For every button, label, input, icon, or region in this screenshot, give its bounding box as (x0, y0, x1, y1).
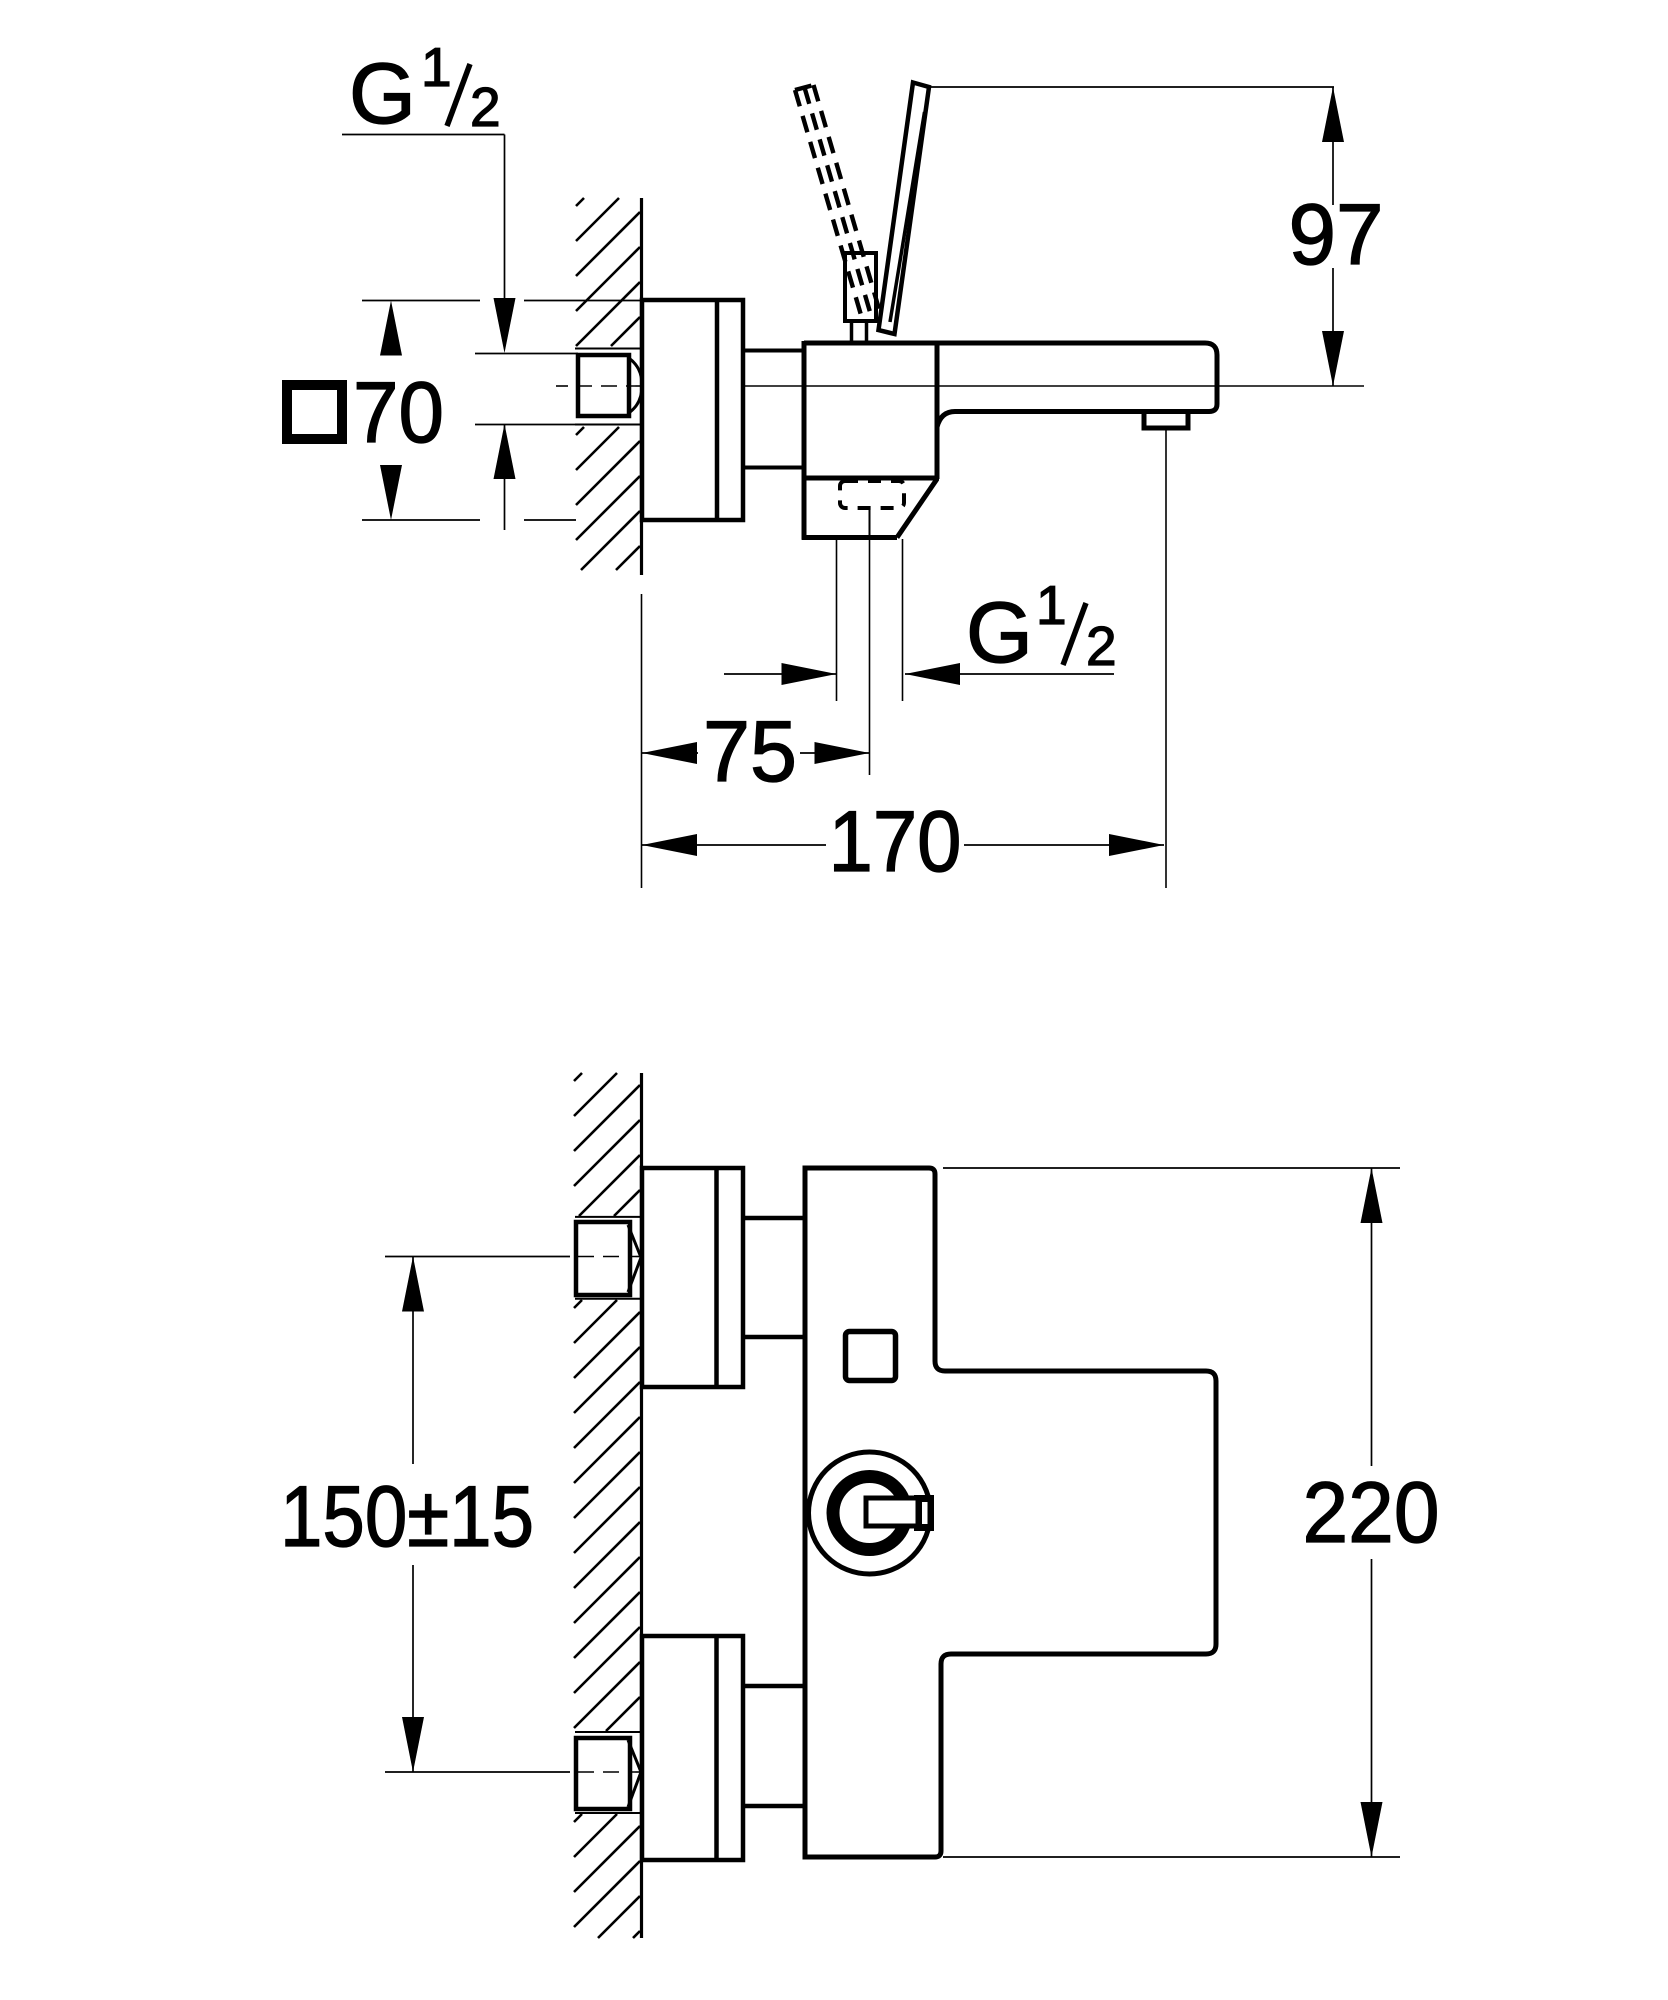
svg-text:170: 170 (829, 794, 962, 890)
svg-text:G: G (966, 585, 1033, 681)
svg-text:2: 2 (470, 76, 501, 138)
svg-text:220: 220 (1303, 1465, 1440, 1561)
svg-text:150±15: 150±15 (280, 1469, 534, 1565)
svg-text:1: 1 (421, 36, 452, 98)
svg-text:97: 97 (1289, 187, 1384, 283)
svg-text:70: 70 (353, 365, 444, 461)
svg-text:2: 2 (1086, 615, 1117, 677)
svg-text:75: 75 (703, 704, 797, 800)
svg-text:1: 1 (1036, 574, 1067, 636)
svg-text:G: G (349, 46, 416, 142)
